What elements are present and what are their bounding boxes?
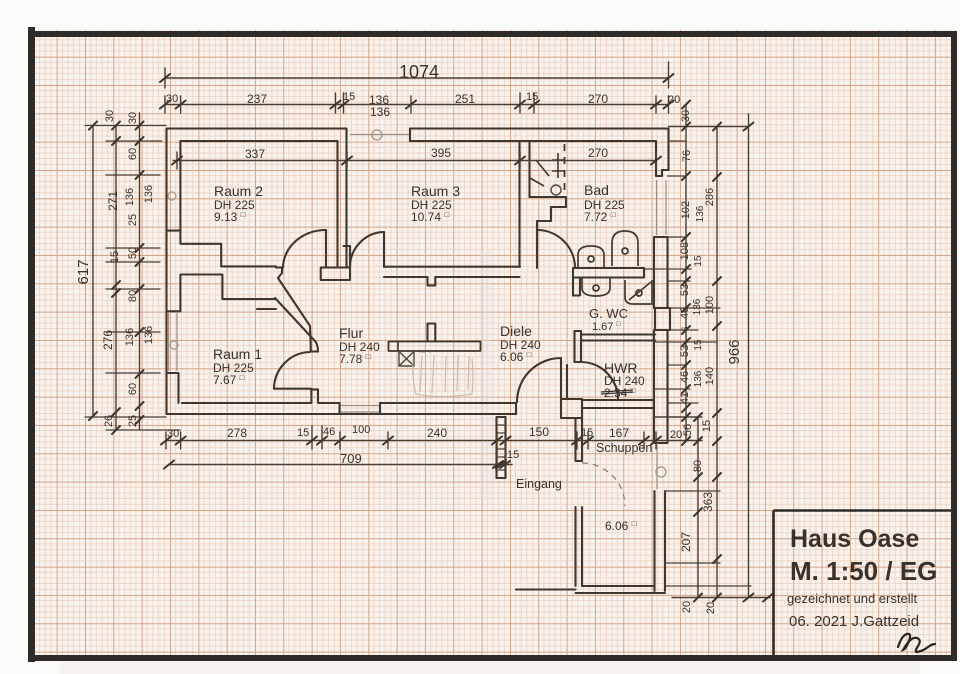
svg-text:Flur: Flur [339,325,363,341]
ticks chain2 [112,122,120,435]
svg-text:150: 150 [529,425,549,439]
svg-text:395: 395 [431,146,451,160]
svg-text:25: 25 [127,214,139,226]
signature squiggle [898,634,935,652]
door entrance leaf [560,358,562,402]
svg-text:25: 25 [127,415,139,427]
dimension chain2 left [115,126,117,431]
wall schuppen west lower (double) [576,507,583,586]
dimension line 1074 total top [165,77,669,79]
wall stub above wardrobe [428,324,436,342]
svg-text:Bad: Bad [584,182,609,198]
frame left bar [28,27,35,662]
svg-text:709: 709 [340,451,362,466]
dimension bottom right link [672,597,770,599]
dimension right chain 966 [748,114,750,598]
door Raum 1 jamb foot [311,389,318,402]
svg-text:30: 30 [127,112,139,124]
wall left exterior inner line upper [179,141,181,231]
wall top exterior outer line [167,127,669,129]
svg-text:15: 15 [343,91,355,103]
dimension link line y417 right [654,416,702,418]
dimension line 337/395/270 inner [173,160,656,162]
svg-text:100: 100 [352,424,370,436]
door HWR swing arc [582,362,618,400]
staircase steps zigzag [530,197,567,230]
svg-text:100: 100 [704,296,716,314]
svg-text:15: 15 [109,251,121,263]
svg-text:80: 80 [127,290,139,302]
door Raum 1 leaf [274,388,311,390]
terrace edge line [516,588,576,590]
svg-text:Diele: Diele [500,323,532,339]
svg-text:Schuppen: Schuppen [596,441,652,455]
dimension right chain x698 [697,417,699,598]
svg-text:278: 278 [227,426,247,440]
svg-text:56: 56 [682,424,694,436]
ticks row 1074 [160,74,674,82]
dimension guides inner row [177,152,656,169]
hole punch circle top [372,130,382,140]
door Raum 2 leaf [325,230,327,267]
faint grid show-through in bottom margin [60,661,920,674]
wall bottom window caps [340,403,381,414]
wall diagonal notch bottom [311,350,318,352]
ticks 709 row [164,461,506,469]
svg-text:20: 20 [705,602,717,614]
svg-text:10.74 □: 10.74 □ [411,210,449,224]
svg-text:240: 240 [427,426,447,440]
wall right window sill box [655,308,670,330]
svg-text:M. 1:50 / EG: M. 1:50 / EG [790,556,937,586]
ticks chain 966 [744,123,754,602]
tick bottom right link end [763,594,773,602]
svg-text:136: 136 [370,105,390,119]
frame bottom bar [28,655,956,661]
door Raum2 jamb step [276,268,282,274]
wall stairs west (double) [520,142,530,268]
svg-text:20: 20 [670,429,682,441]
extension lines left chains [85,126,180,431]
ticks right chain x698 [694,413,702,602]
wall entrance east block [561,399,582,418]
ticks row2 [160,101,674,109]
porch pillar hatch [497,425,506,470]
door Raum 2 swing arc [283,230,326,268]
dimension line top row2 [165,104,669,106]
wall top exterior inner line [180,140,656,142]
wall bottom east cap at entrance [515,403,517,414]
stairs dashed line [564,144,566,192]
svg-text:136: 136 [692,298,703,315]
svg-text:76: 76 [681,150,693,162]
svg-text:30: 30 [680,110,692,122]
wall Raum1 north south face [257,308,276,310]
wall top right corner cap [667,129,669,142]
svg-text:270: 270 [588,92,608,106]
wall right exterior lower (double) [654,330,668,443]
extension lines right chains [644,141,751,586]
svg-text:53: 53 [679,284,691,296]
svg-text:15: 15 [581,427,593,439]
svg-text:53: 53 [679,345,691,357]
svg-text:966: 966 [726,339,743,364]
wall left inner jog between Raum 2 and Raum 1 [167,231,276,312]
svg-text:237: 237 [247,92,267,106]
wall left window cap + inner line lower [167,373,179,403]
outlet circle left lower [170,341,178,349]
svg-text:6: 6 [680,326,690,331]
wall bad east corner piece with hook [656,142,669,177]
svg-text:Raum 3: Raum 3 [411,183,460,199]
svg-text:60: 60 [127,383,139,395]
svg-text:50: 50 [127,247,139,259]
door Bad leaf [536,230,538,268]
wall schuppen east (double) [655,491,666,591]
svg-text:46: 46 [323,426,335,438]
frame top bar [28,31,956,37]
ticks 617 [89,122,97,421]
wall diagonal flur face 2 [275,298,318,352]
svg-text:136: 136 [695,205,706,222]
svg-text:363: 363 [701,492,715,512]
dimension 15 porch guides [493,464,512,466]
svg-text:46: 46 [679,307,691,319]
svg-text:gezeichnet und erstellt: gezeichnet und erstellt [787,591,917,606]
svg-text:15: 15 [526,91,538,103]
window light lines right gaps [657,180,667,489]
svg-text:26: 26 [103,415,115,427]
wardrobe partition line [397,342,399,352]
door Bad swing arc [537,230,575,268]
dimension link line top right [669,126,749,128]
wall schuppen top (double) [582,400,654,408]
ticks right chain x717 [713,123,721,602]
svg-text:337: 337 [245,147,265,161]
wall gwc west upper (double) [573,278,580,296]
svg-text:20: 20 [668,94,680,106]
door Raum 3 jamb [344,246,351,268]
frame right bar [951,31,957,661]
wall gwc south / hwr north (double) [581,335,655,341]
svg-text:136: 136 [124,328,136,346]
strikethrough on 2.34 [601,390,633,394]
svg-text:167: 167 [609,426,629,440]
wall right exterior middle (double) [654,237,668,308]
ticks inner row [172,157,661,165]
wall flur north west segment (double) [321,268,350,281]
svg-text:136: 136 [124,188,136,206]
svg-text:41: 41 [679,392,691,404]
svg-text:60: 60 [127,148,139,160]
svg-text:286: 286 [704,188,716,206]
wall bottom exterior inner line [182,402,516,404]
outlet circle left upper [168,192,176,200]
dimension right chain x686 [685,105,687,442]
dimension line 617 left [92,126,94,417]
svg-text:617: 617 [75,259,92,284]
door Raum 3 leaf [383,232,385,267]
svg-text:15: 15 [693,339,704,351]
svg-text:15: 15 [701,420,713,432]
dimension bottom row [166,440,702,442]
svg-text:06. 2021 J.Gattzeid: 06. 2021 J.Gattzeid [789,613,919,630]
door entrance swing arc [517,358,561,402]
ticks right chain x686 [682,101,690,446]
svg-text:136: 136 [143,185,155,203]
svg-text:46: 46 [679,371,691,383]
svg-text:1074: 1074 [399,62,439,82]
wall diagonal flur face 1 [278,273,311,352]
scanner pale streak [480,250,492,500]
wall gwc jamb column [575,331,582,362]
door schuppen dashed swing arc [582,463,625,506]
dimension chain3 left [139,113,141,430]
svg-text:Raum 2: Raum 2 [214,183,263,199]
window light lines bottom gap [341,406,379,413]
stairs diagonal strokes [530,153,565,186]
svg-text:15: 15 [693,255,704,267]
wall top window gap caps [409,129,411,142]
svg-text:30: 30 [166,93,178,105]
title block border [774,511,952,656]
dimension bottom row guides [166,426,656,467]
wall diele east line [566,365,568,399]
svg-text:207: 207 [679,532,693,552]
fixture sink gwc [582,278,610,296]
svg-text:270: 270 [588,146,608,160]
svg-text:30: 30 [104,110,116,122]
svg-text:251: 251 [455,92,475,106]
tick marks (hand slashes) [89,74,773,602]
svg-text:30: 30 [167,428,179,440]
svg-text:102: 102 [680,201,692,219]
wall Raum2|Raum3 divider (double) [338,129,347,268]
porch pillar outline [497,417,506,478]
dimension right chain x717 [716,127,718,598]
wall bad south / gwc north (double) [573,268,644,278]
wall schuppen west upper (double) [576,418,583,461]
window light lines left gap [169,313,178,371]
svg-text:140: 140 [704,367,716,385]
stairs circle [551,185,561,195]
fixture toilet 1 in bad [578,246,604,269]
svg-text:G. WC: G. WC [589,306,628,321]
wall schuppen bottom (double) [576,586,666,593]
svg-text:80: 80 [692,460,704,472]
ticks chain3 [136,122,144,425]
wall left exterior outer line [165,129,167,415]
outlet circle schuppen window [656,467,666,477]
svg-text:15: 15 [297,427,309,439]
door Raum 1 swing arc [274,352,310,388]
room labels [213,182,652,533]
svg-text:15: 15 [507,449,519,461]
ticks bottom row [161,437,661,445]
window light lines top gap [169,135,667,490]
svg-text:Haus Oase: Haus Oase [790,525,919,553]
fixture corner shower gwc [625,280,652,304]
ticks porch 15 [493,461,510,468]
svg-text:Eingang: Eingang [516,477,562,491]
fixture toilet 2 in bad [612,231,638,266]
svg-text:108: 108 [679,242,691,260]
svg-text:136: 136 [693,370,704,387]
svg-text:271: 271 [106,191,120,211]
dimension guides top row2 [165,93,669,113]
dimension guides top row1 [165,62,669,88]
washing machine box with X [399,352,431,367]
svg-text:276: 276 [101,330,115,350]
svg-text:20: 20 [681,601,693,613]
wardrobe bench outline [389,342,481,352]
wall bottom exterior outer line [167,413,517,415]
wall diele north upper line [384,266,520,268]
wall diele north lower line with notch [384,277,520,285]
svg-text:136: 136 [143,326,155,344]
faint furniture sketch in diele [413,355,473,397]
svg-text:Raum 1: Raum 1 [213,346,262,362]
dimension line 709 [169,464,505,466]
door Raum 3 swing arc [350,232,384,267]
